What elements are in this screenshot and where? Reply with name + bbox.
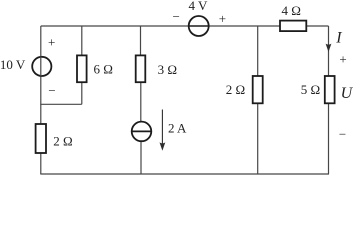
svg-text:4 V: 4 V bbox=[189, 0, 209, 13]
svg-text:−: − bbox=[48, 83, 55, 98]
svg-text:+: + bbox=[339, 51, 346, 66]
wire current source to bottom rail bbox=[140, 142, 142, 174]
wire through V1 bbox=[40, 56, 42, 76]
resistor R4 2-ohm right box bbox=[253, 76, 263, 103]
resistor R1 2-ohm left box bbox=[36, 124, 46, 153]
svg-text:6 Ω: 6 Ω bbox=[94, 61, 113, 76]
resistor R3 3-ohm box bbox=[136, 55, 146, 82]
wire jog node B horizontal bbox=[40, 103, 82, 105]
voltage source V2 bar bbox=[189, 25, 209, 27]
svg-text:−: − bbox=[339, 126, 346, 141]
voltage source V2 4V circle bbox=[189, 16, 209, 36]
wire 2-ohm right branch lower bbox=[257, 103, 259, 174]
svg-text:5 Ω: 5 Ω bbox=[301, 82, 320, 97]
resistor R6 5-ohm box bbox=[325, 76, 335, 103]
arrow 2A direction bbox=[160, 110, 166, 151]
svg-text:I: I bbox=[335, 30, 342, 47]
voltage source V1 10V circle bbox=[32, 57, 51, 76]
resistor R5 4-ohm box bbox=[280, 21, 306, 32]
wire 6-ohm branch upper bbox=[81, 26, 83, 55]
svg-text:+: + bbox=[219, 11, 226, 26]
svg-text:+: + bbox=[48, 34, 55, 49]
svg-text:2 Ω: 2 Ω bbox=[53, 133, 72, 148]
svg-text:4 Ω: 4 Ω bbox=[282, 3, 301, 18]
svg-text:3 Ω: 3 Ω bbox=[158, 62, 177, 77]
wire right rail upper bbox=[328, 26, 330, 76]
wire below left 2-ohm resistor bbox=[40, 153, 42, 174]
current source I1 circle bbox=[132, 122, 152, 142]
wire 6-ohm branch lower bbox=[81, 82, 83, 104]
svg-text:U: U bbox=[341, 85, 354, 102]
svg-text:2 Ω: 2 Ω bbox=[226, 82, 245, 97]
current source I1 bar bbox=[132, 130, 152, 132]
svg-text:−: − bbox=[173, 9, 180, 24]
arrow current I on right rail bbox=[326, 44, 332, 52]
wire right rail lower bbox=[328, 103, 330, 174]
wire 3-ohm to current source bbox=[140, 82, 142, 121]
wire 3-ohm branch upper bbox=[140, 26, 142, 55]
resistor R2 6-ohm box bbox=[77, 55, 87, 82]
wire left branch vertical bbox=[40, 26, 42, 125]
wire top rail bbox=[41, 25, 329, 27]
svg-text:10 V: 10 V bbox=[0, 57, 26, 72]
svg-text:2 A: 2 A bbox=[168, 121, 187, 136]
wire 2-ohm right branch upper bbox=[257, 26, 259, 76]
wire bottom rail bbox=[40, 173, 329, 175]
